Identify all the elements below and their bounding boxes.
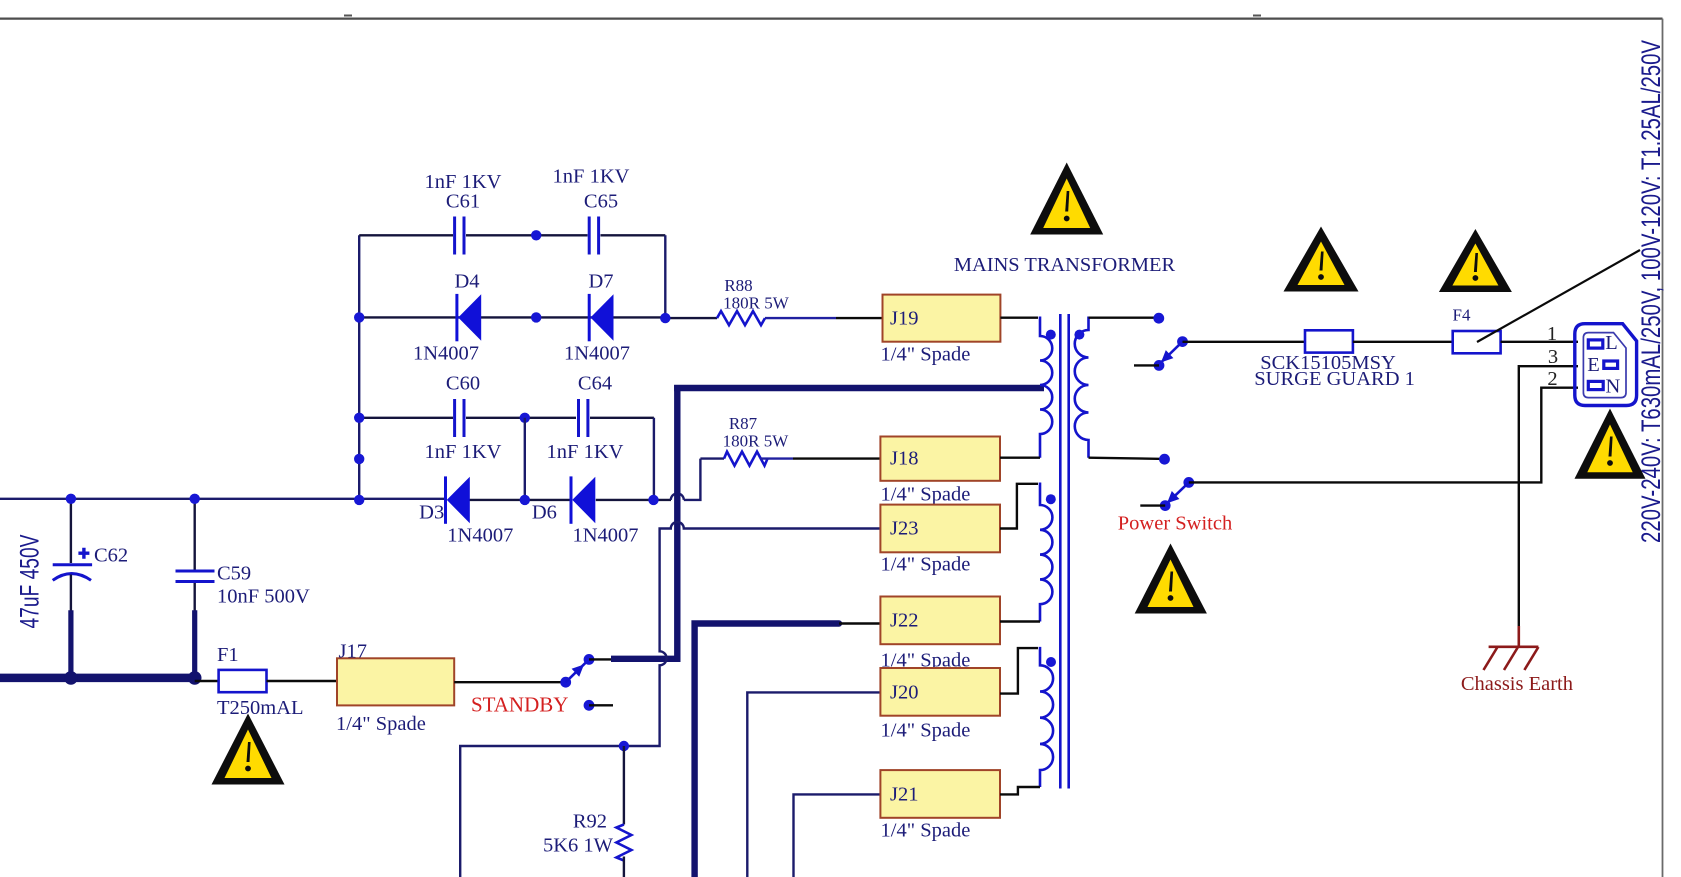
wire IEC pin 3 to chassis earth (1519, 366, 1578, 628)
node x=359 vertical (358, 235, 360, 500)
svg-text:F4: F4 (1453, 305, 1471, 324)
svg-text:R92: R92 (573, 811, 607, 833)
junction dot (190, 494, 200, 504)
svg-text:47uF 450V: 47uF 450V (15, 535, 45, 629)
wire thick end to J22 (839, 622, 880, 624)
fuse F1 (195, 644, 304, 719)
svg-text:1nF 1KV: 1nF 1KV (553, 166, 630, 188)
thick bus to transformer y=388 (674, 385, 1044, 391)
junction dot (bus) (64, 671, 78, 685)
transformer primary winding A (1040, 317, 1052, 458)
junction dot (520, 495, 530, 505)
svg-text:Chassis Earth: Chassis Earth (1461, 673, 1573, 695)
junction dot (660, 313, 670, 323)
resistor R92 (543, 746, 631, 877)
polarity dot secondary (1074, 330, 1084, 340)
wire standby to thick bus (589, 658, 612, 660)
wire J20 to primary C (1000, 648, 1038, 694)
svg-text:2: 2 (1547, 368, 1557, 390)
svg-text:D6: D6 (532, 502, 557, 524)
thick bus J22 net (695, 624, 839, 877)
svg-text:E: E (1587, 354, 1600, 376)
transformer core (1060, 314, 1068, 789)
connector J17 (336, 641, 454, 736)
svg-text:L: L (1605, 332, 1618, 354)
thick bus standby horizontal (611, 656, 681, 662)
border right line (1662, 19, 1664, 877)
svg-text:J22: J22 (890, 610, 918, 632)
polarity dot primary C (1046, 657, 1056, 667)
warning triangle (fuse F1) (212, 714, 285, 785)
border top line (0, 16, 1663, 19)
wire J17 to standby switch (454, 681, 566, 683)
svg-text:1/4" Spade: 1/4" Spade (881, 720, 971, 742)
capacitor C61 (425, 171, 502, 255)
warning triangle (IEC inlet) (1575, 409, 1646, 479)
svg-text:J19: J19 (890, 308, 918, 330)
transformer secondary winding (1075, 317, 1089, 458)
svg-text:D4: D4 (454, 271, 479, 293)
svg-text:C65: C65 (584, 191, 618, 213)
svg-text:C61: C61 (446, 191, 480, 213)
svg-text:5K6 1W: 5K6 1W (543, 835, 614, 857)
junction dot (520, 413, 530, 423)
wire hop over thick bus at D-row (671, 493, 684, 500)
thick bus vertical x=677 (674, 385, 680, 662)
warning triangle (transformer) (1030, 163, 1103, 235)
diode D7 (564, 271, 630, 365)
junction dot (354, 312, 364, 322)
diode D3 (419, 476, 513, 546)
polarity dot primary A (1046, 330, 1056, 340)
wire C65 right vertical (664, 235, 666, 318)
junction dot (354, 454, 364, 464)
junction dot R92 tap (619, 741, 629, 751)
svg-text:N: N (1606, 376, 1621, 398)
diode D6 (532, 476, 639, 546)
svg-text:1N4007: 1N4007 (564, 343, 630, 365)
svg-text:3: 3 (1548, 346, 1558, 368)
wire switch to surge guard (1183, 341, 1306, 343)
wire D-row1 (359, 316, 665, 318)
wire primary C to J21 (1000, 787, 1040, 794)
svg-text:Power Switch: Power Switch (1118, 513, 1232, 535)
transformer primary winding B (1040, 483, 1052, 622)
svg-text:10nF 500V: 10nF 500V (217, 586, 310, 608)
svg-text:1nF 1KV: 1nF 1KV (547, 441, 624, 463)
svg-text:1N4007: 1N4007 (447, 525, 513, 547)
wire C64 right vertical (653, 418, 655, 500)
wire J19 to primary A (1000, 317, 1038, 319)
thick stub C62 (68, 610, 73, 678)
junction dot (531, 230, 541, 240)
svg-text:180R 5W: 180R 5W (723, 294, 790, 313)
capacitor C62 (electrolytic) (53, 499, 128, 611)
wire D6 to node (596, 499, 671, 501)
capacitor C60 (425, 373, 502, 464)
svg-text:T250mAL: T250mAL (217, 697, 304, 719)
wire primary A to J18 (1000, 457, 1040, 459)
wire F4 to IEC pin 1 (1501, 341, 1578, 343)
connector J21 (880, 770, 1000, 841)
diode D4 (413, 271, 481, 365)
surge guard SCK15105MSY (1254, 330, 1415, 390)
connector J18 (880, 437, 1000, 506)
svg-text:MAINS TRANSFORMER: MAINS TRANSFORMER (954, 254, 1176, 276)
wire secondary top to switch (1089, 317, 1159, 319)
warning triangle (power switch) (1135, 544, 1207, 614)
junction dot (66, 494, 76, 504)
thick bus bottom-left (0, 674, 198, 683)
svg-text:SURGE GUARD 1: SURGE GUARD 1 (1254, 368, 1415, 390)
junction dot (648, 495, 658, 505)
resistor R87 (700, 414, 880, 466)
connector J20 (880, 668, 1000, 742)
warning triangle (F4) (1439, 229, 1512, 292)
wire F1 to J17 (267, 680, 338, 682)
svg-text:D3: D3 (419, 502, 444, 524)
svg-text:J23: J23 (890, 518, 918, 540)
junction dot (354, 413, 364, 423)
svg-text:220V-240V: T630mAL/250V, 100V-: 220V-240V: T630mAL/250V, 100V-120V: T1.2… (1636, 40, 1666, 543)
wire J20 left (747, 692, 880, 877)
wire J21 left (794, 794, 881, 877)
svg-text:1/4" Spade: 1/4" Spade (881, 820, 971, 842)
wire secondary bottom to power switch (1089, 458, 1165, 459)
svg-text:1N4007: 1N4007 (413, 343, 479, 365)
capacitor C64 (547, 373, 624, 464)
thick stub C59 (192, 610, 197, 678)
svg-text:C59: C59 (217, 562, 251, 584)
svg-text:1/4" Spade: 1/4" Spade (881, 554, 971, 576)
transformer primary winding C (1040, 647, 1053, 787)
wire J23 to primary B (1000, 484, 1038, 529)
warning triangle (surge guard) (1284, 227, 1359, 292)
svg-text:180R 5W: 180R 5W (723, 431, 790, 450)
connector J23 (880, 505, 1000, 576)
svg-text:R87: R87 (729, 414, 758, 433)
svg-text:J21: J21 (890, 784, 918, 806)
wire surge guard to F4 (1353, 341, 1453, 343)
svg-text:1: 1 (1547, 323, 1557, 345)
junction dot (354, 495, 364, 505)
wire C-row1 (359, 234, 665, 236)
svg-text:J17: J17 (339, 641, 367, 663)
IEC mains inlet connector (1575, 324, 1637, 406)
connector J19 (881, 295, 1001, 366)
svg-text:C62: C62 (94, 545, 128, 567)
capacitor C59 (176, 499, 311, 611)
switch voltage select (1134, 313, 1188, 371)
svg-text:R88: R88 (724, 276, 752, 295)
svg-text:1N4007: 1N4007 (572, 525, 638, 547)
svg-text:STANDBY: STANDBY (471, 693, 569, 717)
svg-text:J20: J20 (890, 682, 918, 704)
switch STANDBY (471, 654, 613, 717)
polarity dot primary B (1046, 494, 1056, 504)
svg-text:C60: C60 (446, 373, 480, 395)
wire D3-D6 segment (470, 499, 571, 501)
svg-text:1/4" Spade: 1/4" Spade (881, 344, 971, 366)
wire C60-C64 node to D-row (524, 418, 526, 500)
wire IEC pin 2 to power switch (1189, 388, 1578, 483)
wire main AC rail y=499 (0, 498, 445, 500)
switch power (1118, 454, 1232, 535)
wire J23 net with hop (460, 522, 880, 877)
resistor R88 (665, 276, 882, 325)
callout diagonal to fuse note (1477, 250, 1640, 342)
wire to R87 feed corner (684, 459, 701, 500)
capacitor C65 (553, 166, 630, 255)
chassis earth symbol (1461, 626, 1573, 695)
svg-text:1/4" Spade: 1/4" Spade (881, 484, 971, 506)
wire primary B to J22 (1000, 620, 1040, 622)
connector J22 (880, 597, 1000, 672)
svg-text:D7: D7 (588, 271, 613, 293)
svg-text:1/4" Spade: 1/4" Spade (336, 713, 426, 735)
svg-text:C64: C64 (578, 373, 612, 395)
fuse F4 (1453, 305, 1501, 353)
svg-text:1nF 1KV: 1nF 1KV (425, 441, 502, 463)
junction dot (bus) (188, 671, 202, 685)
svg-text:J18: J18 (890, 448, 918, 470)
svg-text:F1: F1 (217, 644, 239, 666)
junction dot (531, 312, 541, 322)
wire C-row2 (359, 417, 654, 419)
